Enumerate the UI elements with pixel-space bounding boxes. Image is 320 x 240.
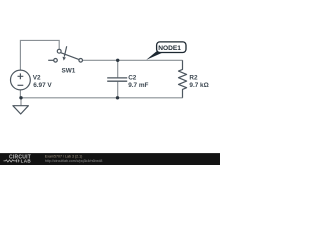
wire from V2 bottom to ground node	[19, 90, 21, 98]
svg-text:R2: R2	[189, 75, 198, 82]
voltage source V2	[11, 70, 31, 90]
SW1 top throw terminal	[57, 49, 61, 53]
node NODE1 bubble	[157, 42, 186, 53]
svg-text:SW1: SW1	[62, 67, 76, 74]
watermark bar	[0, 153, 220, 165]
svg-text:9.7 kΩ: 9.7 kΩ	[189, 82, 208, 89]
svg-text:NODE1: NODE1	[158, 45, 181, 52]
svg-text:C2: C2	[128, 75, 137, 82]
resistor R2	[179, 60, 187, 98]
wire bottom rail	[21, 97, 183, 99]
capacitor C2	[107, 78, 127, 81]
svg-text:V2: V2	[33, 75, 41, 82]
wire from V2 top to switch SW1 top throw	[20, 40, 59, 70]
svg-text:6.97 V: 6.97 V	[33, 82, 52, 89]
SW1 lever	[61, 53, 79, 60]
ground	[20, 98, 22, 106]
node NODE1 flag tail	[146, 51, 162, 60]
switch SW1	[48, 46, 82, 62]
watermark logo resistor squiggle	[4, 159, 20, 162]
SW1 common terminal	[79, 59, 83, 63]
svg-text:LAB: LAB	[21, 159, 32, 164]
node junction dot C2 top	[116, 59, 119, 62]
wire top rail from SW1 common to R2	[82, 59, 182, 61]
SW1 unconnected throw stub	[48, 59, 54, 61]
SW1 unconnected throw terminal	[54, 59, 58, 63]
wire capacitor C2 top stub	[117, 60, 119, 77]
svg-text:9.7 mF: 9.7 mF	[128, 82, 148, 89]
SW1 toggle arrow	[64, 46, 66, 56]
wire capacitor C2 bottom stub	[117, 82, 119, 98]
node junction dot at V2/ground on bottom rail	[19, 96, 22, 99]
svg-text:http://circuitlab.com/c/pq3k4r: http://circuitlab.com/c/pq3k4rh6bxd8	[45, 159, 103, 163]
node junction dot C2 bottom	[116, 96, 119, 99]
SW1 toggle arrowhead	[63, 57, 66, 61]
